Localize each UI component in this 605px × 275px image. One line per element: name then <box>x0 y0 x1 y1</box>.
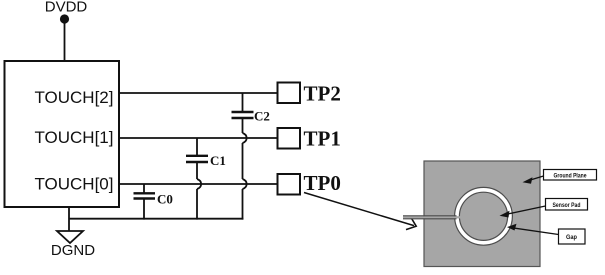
callout arrow Gap <box>512 228 559 235</box>
svg-text:C0: C0 <box>157 192 173 207</box>
hop C1 over TOUCH[0] wire <box>197 179 201 189</box>
svg-text:Sensor Pad: Sensor Pad <box>553 202 581 209</box>
wire TOUCH[0] to TP0 <box>119 183 278 185</box>
capacitor C0 <box>134 192 156 194</box>
svg-text:C1: C1 <box>210 153 226 168</box>
svg-text:TP1: TP1 <box>304 126 341 150</box>
wire C2 vertical middle <box>242 119 244 133</box>
svg-text:Gap: Gap <box>566 234 577 241</box>
hop C2 over TOUCH[0] wire <box>243 179 247 189</box>
svg-text:DGND: DGND <box>51 242 95 259</box>
svg-text:DVDD: DVDD <box>45 0 88 16</box>
svg-text:C2: C2 <box>254 109 270 124</box>
wire C2 vertical bottom <box>242 189 244 220</box>
callout box Sensor Pad <box>546 199 588 211</box>
wire C0 vertical bottom <box>143 200 145 220</box>
svg-text:Ground Plane: Ground Plane <box>554 172 587 179</box>
sensor ground plane <box>424 161 540 267</box>
hop C2 over TOUCH[1] wire <box>243 133 247 143</box>
wire TOUCH[2] to TP2 <box>119 92 278 94</box>
capacitor C2 <box>232 111 254 113</box>
test pad TP2 <box>278 83 301 104</box>
IC U1 box <box>5 61 120 207</box>
wire C2 vertical lower <box>242 143 244 179</box>
wire C1 vertical bottom <box>196 189 198 220</box>
svg-text:TOUCH[2]: TOUCH[2] <box>34 88 113 107</box>
wire C1 vertical upper <box>196 138 198 155</box>
arrow TP0 to sensor trace <box>304 193 414 226</box>
svg-text:TOUCH[1]: TOUCH[1] <box>34 128 113 147</box>
callout arrow Sensor Pad <box>504 206 546 215</box>
bottom ground bus wire <box>69 218 243 220</box>
wire C2 vertical upper <box>242 93 244 111</box>
callout arrow Ground Plane <box>527 176 544 181</box>
ground symbol <box>57 231 83 243</box>
wire DVDD to IC <box>64 22 66 61</box>
wire C0 vertical upper <box>143 184 145 193</box>
svg-text:TP0: TP0 <box>304 171 341 195</box>
power node dot <box>60 14 69 23</box>
test pad TP0 <box>278 174 301 195</box>
ground stem wire <box>68 207 70 231</box>
capacitor C1 <box>186 155 208 157</box>
wire C1 vertical middle <box>196 163 198 179</box>
wire TOUCH[1] to TP1 <box>119 137 278 139</box>
callout box Gap <box>559 229 586 244</box>
sensor trace <box>403 216 463 218</box>
svg-text:TOUCH[0]: TOUCH[0] <box>34 175 113 194</box>
svg-text:TP2: TP2 <box>304 82 341 106</box>
test pad TP1 <box>278 128 301 149</box>
callout box Ground Plane <box>544 170 597 181</box>
sensor pad gap ring <box>457 190 510 243</box>
